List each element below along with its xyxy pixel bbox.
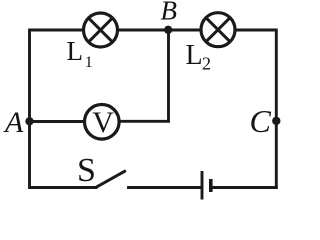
node C	[272, 117, 280, 125]
svg-text:A: A	[3, 106, 24, 139]
wire voltmeter to riser up to node B	[120, 30, 169, 121]
wire L2 to top-right corner, down right side	[237, 30, 277, 188]
battery cell: short plate	[209, 179, 213, 192]
svg-text:V: V	[92, 106, 114, 139]
node B	[164, 26, 172, 34]
svg-text:L: L	[67, 36, 84, 66]
wire switch to battery	[129, 186, 201, 189]
voltmeter V (meter U1)	[85, 105, 120, 140]
svg-text:B: B	[161, 0, 178, 26]
lamp L2	[201, 13, 235, 47]
node A	[25, 117, 33, 125]
svg-text:S: S	[77, 152, 96, 189]
svg-text:2: 2	[202, 54, 211, 74]
wire battery to bottom-right corner	[212, 186, 276, 189]
switch S blade	[96, 171, 125, 187]
lamp L1	[84, 13, 118, 47]
svg-text:C: C	[250, 103, 272, 139]
wire L1 to L2 through node B	[119, 29, 200, 32]
svg-text:L: L	[186, 40, 203, 71]
svg-text:1: 1	[85, 54, 93, 71]
wire A to voltmeter	[30, 120, 84, 123]
battery cell: long plate	[201, 171, 204, 200]
wire left side lower: A down to bottom-left corner, to switch	[30, 122, 97, 188]
wire top-left: corner to L1	[30, 30, 83, 122]
